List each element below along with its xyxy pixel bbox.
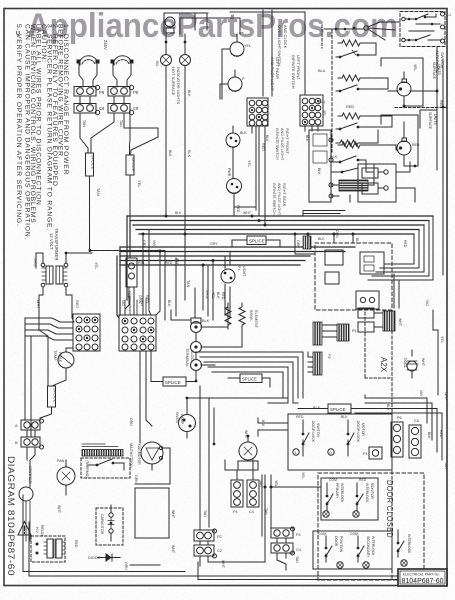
fan motor FM1: [57, 459, 75, 495]
wire loop around RC1: [381, 58, 423, 106]
surface burner SB1 (left front): [77, 56, 100, 87]
wire GRN transformer left up: [36, 253, 43, 268]
wire from C4d down: [277, 553, 286, 570]
oven lamp OL: [175, 406, 196, 438]
wire splice S7 sides: [228, 378, 270, 387]
secondary interlock switch SI1: [350, 532, 375, 568]
splice S6: [313, 404, 351, 413]
wire temp fuse top to CB-A: [52, 348, 73, 386]
wire splice S5: [151, 351, 196, 382]
splice S1 (TAN): [86, 153, 102, 196]
cooling fan dashed box: [81, 458, 130, 478]
wire right edge verticals: [433, 310, 438, 395]
small boxes left of RC-D: [358, 308, 383, 332]
wire splice S4 left/right: [232, 240, 280, 247]
wire YEL transformer right: [66, 253, 92, 263]
latch assembly box: [358, 164, 396, 202]
wires top center verticals: [220, 10, 305, 99]
relay box RB2: [356, 291, 379, 309]
resistor R-RR1: [338, 113, 364, 119]
broil element vertical resistors: [225, 303, 258, 329]
wires secondary interlock right: [397, 530, 399, 557]
connector strip C4d: [271, 538, 301, 555]
wire IL1 down: [165, 34, 167, 216]
oven vent switch OVS: [165, 17, 175, 33]
wire RED transformer bottom-right down: [66, 287, 74, 322]
main harness bundle H2 (lower): [117, 247, 355, 318]
pilot lamp PL4: [227, 168, 257, 216]
surface element network dashed bus: [331, 30, 333, 152]
connector strip C2b: [194, 545, 222, 558]
door position switch DP1: [318, 532, 343, 568]
connector C8 row2 SB1: [74, 97, 105, 115]
relay box RB1: [360, 252, 384, 274]
wires left of door lock box: [258, 418, 288, 562]
receptacle RC2: [396, 122, 420, 166]
wire loop around RC2: [381, 115, 418, 166]
wire IL2 down: [184, 34, 186, 234]
resistor R-RF1: [338, 40, 364, 46]
wire from C9 right pin down joins yellow: [124, 113, 158, 137]
connector P8 row1 SB1: [74, 85, 105, 96]
wire TAN splice S1 down and right to terminal feed: [90, 176, 166, 316]
temp fuse F1: [53, 350, 74, 368]
wires CB-C down to bundle: [252, 126, 265, 225]
wire YEL splice S2 down to P31: [129, 175, 131, 258]
bake element (hatched bar): [331, 180, 374, 191]
magnetron element hatched bar: [82, 443, 133, 468]
wires from latch box right: [396, 162, 415, 202]
ribbon connector RC-C (hatched): [313, 352, 331, 375]
wires terminal block to right: [171, 303, 242, 365]
surface burner SB2 (left rear): [111, 56, 134, 87]
label infinite switch right front: [272, 128, 289, 216]
bake element housing box: [309, 130, 333, 202]
door lock switch DL2: [328, 415, 365, 456]
DOOR CLOSED dashed box: [318, 473, 424, 580]
hot surface indicator light IL1: [161, 55, 172, 66]
assorted wire labels: [57, 60, 448, 570]
switch SW-BK2: [331, 168, 358, 202]
bundle vertical drops center: [185, 234, 230, 320]
connector strip P4d: [271, 527, 301, 538]
primary interlock box: [321, 478, 378, 520]
stirrer motor M1: [19, 466, 33, 501]
wires into hi-limit box lower: [303, 211, 345, 217]
wire splice S6 sides: [298, 408, 430, 410]
part number box: [398, 569, 447, 586]
ribbon connector RC-D (hatched): [383, 311, 395, 331]
wires verticals into OC from H1: [295, 234, 353, 254]
diode D1: [88, 554, 120, 561]
terminal strip B: [15, 430, 44, 449]
connector C9 row2 SB2: [108, 97, 139, 115]
wire loop fan motor FM2: [135, 448, 170, 484]
wire stirrer down to loop: [26, 501, 30, 541]
small connector box P1C1: [363, 447, 382, 459]
wire receptacle RC1 to right: [410, 90, 437, 92]
P31 connector vertical: [126, 258, 145, 287]
wires nested corners into RC-C: [196, 352, 313, 403]
wires bake area to right: [362, 130, 378, 185]
wires above C4 strips: [225, 460, 253, 480]
wires below RB1: [380, 264, 399, 308]
switch SW-RF2: [336, 85, 365, 92]
wires P31 down to CB-B: [125, 287, 134, 315]
A2X board outline: [365, 310, 392, 580]
connector strip C4b: [247, 480, 259, 514]
alternate switch dashed box ASW: [400, 12, 451, 47]
resistor R-BK: [336, 140, 362, 146]
nested corner bundle right (from H1): [368, 216, 433, 280]
ribbon connector RC-B (hatched horizontal): [337, 324, 357, 341]
splice S5: [163, 377, 186, 386]
splice S2 (YEL): [126, 155, 142, 188]
wire from C2b down right: [200, 541, 265, 566]
connector block CB-C (infinite switch left): [247, 98, 268, 126]
splice S7: [240, 374, 262, 383]
wires mid-bottom verticals: [187, 386, 288, 530]
HV relay dashed box: [31, 525, 65, 562]
HV transformer in relay box: [44, 539, 65, 558]
wire CB-B bottom to fan motor: [140, 351, 152, 443]
dashed separator right: [395, 107, 446, 109]
pilot light PL5: [221, 266, 246, 283]
splice S3 (vertical): [48, 386, 58, 407]
main harness bundle H1 (upper): [127, 216, 433, 300]
door position box: [313, 531, 392, 569]
wire labels center drops: [127, 291, 225, 306]
top feed wires along border: [164, 13, 240, 34]
oven switch contact row: [324, 22, 400, 40]
wires into primary interlock from left: [262, 487, 321, 536]
wire strips down to stirrer: [27, 447, 35, 487]
connector block CB-B (4x4 terminals): [119, 315, 156, 351]
door lock switch box: [288, 414, 392, 470]
primary interlock switch PI1: [323, 478, 344, 517]
connector strip C6: [409, 419, 421, 458]
wires network right to receptacles: [364, 43, 396, 145]
warning triangle: [18, 522, 31, 536]
transformer T1: [41, 263, 68, 287]
labels surface units right margin: [428, 62, 441, 130]
resistor R-RR2: [338, 142, 364, 148]
wire vertical runs left margin: [25, 318, 31, 437]
bottom cavity box: [135, 488, 175, 538]
oven control dashed box OC: [315, 243, 392, 310]
big bottom-left wire loop: [23, 495, 447, 580]
wires verticals into CB-B from bundle: [143, 230, 195, 319]
turntable motor TM: [238, 436, 258, 470]
wire WHT transformer bottom-left down: [39, 287, 48, 386]
ribbon connector RC-A (hatched): [313, 322, 337, 345]
infinite switch lamp LR (dashed): [220, 70, 245, 91]
connector strip P6: [391, 416, 403, 457]
connector block CB-A (3x4 terminals): [73, 314, 100, 351]
wire YEL into splice S2: [130, 113, 159, 155]
wires right margin verticals: [420, 47, 443, 275]
wire splice S3 down to strips: [40, 407, 52, 425]
convection sensor CS: [403, 350, 425, 378]
terminal block TB: [185, 318, 210, 371]
connector strip C4a: [231, 480, 243, 514]
notes text column (rotated): [15, 24, 69, 240]
infinite switch lamp LF (dashed): [222, 34, 251, 56]
switch SW-BK1: [331, 156, 366, 172]
connector block CB-D (infinite switch right): [300, 95, 323, 126]
switch SW-RR1: [336, 123, 365, 130]
convection fan motor FM2: [137, 442, 163, 465]
door lock switch DL1: [293, 415, 320, 456]
connector strip P2b: [194, 529, 222, 541]
wires CB-D down: [305, 126, 318, 131]
connector P9 row1 SB2: [108, 85, 139, 96]
pilot lamp PL3: [226, 126, 247, 178]
lower-right nested corner wires: [355, 395, 442, 460]
receptacle RC1: [388, 64, 417, 106]
wires CB-B feed verticals: [125, 296, 146, 315]
wires into CB-A from left with jogs: [25, 318, 73, 340]
wire TAN pair from SB1/SB2 to splice S1: [80, 113, 114, 153]
interlock monitor switch PI2: [353, 478, 374, 517]
switch SW-RF1: [336, 50, 365, 58]
hot surface indicator light IL2: [180, 55, 191, 66]
dashed separator mid-right: [365, 377, 392, 379]
resistor R-RF2: [338, 75, 364, 81]
capacitor dashed box: [96, 505, 123, 545]
terminal strip A: [15, 419, 44, 430]
connector P30 (hatched): [303, 236, 311, 249]
splice S4: [247, 236, 266, 245]
